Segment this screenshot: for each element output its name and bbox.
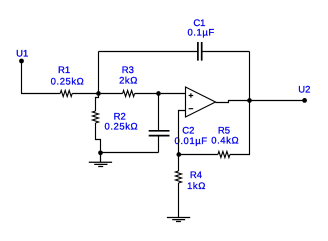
node A	[96, 91, 101, 96]
wire output to U2	[250, 100, 305, 102]
label R2	[114, 112, 126, 123]
svg-text:0.25kΩ: 0.25kΩ	[105, 122, 139, 133]
capacitor C2	[149, 131, 170, 136]
node B	[156, 91, 161, 96]
wire node B down to C2	[158, 94, 160, 131]
label R4	[190, 170, 202, 181]
op-amp U3	[186, 87, 216, 117]
wire node A to R3	[101, 93, 123, 95]
wire C1 rail left	[99, 51, 198, 53]
value C1 0.1uF	[187, 28, 214, 39]
wire U1 stem down	[21, 61, 23, 94]
wire R5 right and up to output node	[230, 101, 250, 155]
label C2	[182, 126, 194, 137]
wire R2 down to ground junction	[96, 123, 101, 153]
svg-text:1kΩ: 1kΩ	[187, 181, 206, 192]
capacitor C1	[198, 42, 202, 61]
node output	[247, 98, 252, 103]
resistor R5	[218, 152, 230, 158]
wire R3 to node B	[135, 93, 159, 95]
svg-text:R4: R4	[190, 170, 202, 181]
label R3	[122, 65, 134, 76]
node ground junction	[98, 150, 103, 155]
op-amp minus sign	[189, 108, 194, 110]
wire C2 down to bottom rail	[158, 136, 160, 152]
svg-text:R1: R1	[58, 65, 70, 76]
wire minus input left and down	[179, 111, 186, 155]
svg-text:U1: U1	[16, 48, 28, 59]
svg-text:U2: U2	[298, 85, 310, 96]
wire R2 jog from node A	[96, 96, 99, 111]
wire op-amp output	[216, 101, 250, 103]
svg-text:0.4kΩ: 0.4kΩ	[211, 135, 239, 146]
label U1	[16, 48, 28, 59]
resistor R4	[176, 171, 182, 183]
svg-text:C2: C2	[182, 126, 194, 137]
wire bottom rail to ground junction	[101, 152, 159, 154]
svg-text:2kΩ: 2kΩ	[119, 75, 138, 86]
label U2	[298, 85, 310, 96]
value R4 1k	[187, 181, 206, 192]
wire R1 to node A	[72, 93, 98, 95]
value R3 2k	[119, 75, 138, 86]
wire node B to op-amp plus input	[161, 93, 186, 95]
node C	[176, 152, 181, 157]
wire node A up to C1 rail	[98, 52, 100, 94]
terminal U2	[302, 98, 307, 103]
op-amp plus sign	[189, 93, 194, 98]
label R5	[218, 125, 230, 136]
value R2 0.25k	[105, 122, 139, 133]
wire node C to R5	[179, 154, 218, 156]
ground G1	[89, 153, 112, 167]
resistor R1	[60, 91, 72, 97]
value C2 0.01uF	[175, 136, 208, 147]
svg-text:0.01µF: 0.01µF	[175, 136, 208, 147]
label R1	[58, 65, 70, 76]
svg-text:0.25kΩ: 0.25kΩ	[51, 77, 85, 88]
terminal U1	[19, 59, 24, 64]
wire C1 rail right	[202, 51, 249, 53]
resistor R2	[93, 111, 99, 123]
wire U1 to R1	[21, 93, 60, 95]
wire R4 from node C down	[178, 156, 180, 171]
resistor R3	[123, 91, 135, 97]
value R1 0.25k	[51, 77, 85, 88]
value R5 0.4k	[211, 135, 239, 146]
wire feedback down to output node	[249, 52, 251, 101]
ground G2	[167, 218, 190, 222]
svg-text:0.1µF: 0.1µF	[187, 28, 214, 39]
wire R4 down to ground	[178, 183, 180, 217]
label C1	[193, 18, 205, 29]
